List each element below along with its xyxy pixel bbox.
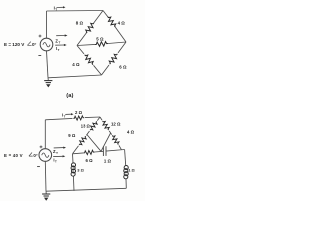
resistor R9 12-ohm (right diagonal upper) — [101, 120, 110, 131]
wire: resistor R1 to node T — [94, 11, 103, 23]
ground symbol circuit (a) — [44, 81, 52, 88]
wire: resistor R9 to node RN — [109, 131, 112, 135]
wire: node B to resistor R5, lower-right bridge arm — [102, 65, 110, 75]
minus sign of source E1 — [38, 55, 41, 57]
ac source E2 circle — [39, 149, 52, 162]
wire: middle branch, node LVa to resistor R11 — [73, 152, 84, 155]
wire: node L to resistor R4, lower-left bridge arm — [77, 46, 84, 54]
wire: circuit (b) source E2 top lead, vertical — [44, 120, 46, 149]
wire: circuit (a) top horizontal to node T — [47, 10, 104, 13]
resistor R10 4-ohm (right diagonal lower) — [111, 134, 120, 145]
wire: resistor R10 to middle wire junction — [119, 145, 122, 149]
ground symbol circuit (b) — [42, 194, 50, 201]
svg-text:3 Ω: 3 Ω — [77, 167, 84, 172]
arrow over I_T label (b) — [53, 155, 63, 157]
wire: resistor R4 to node B — [94, 65, 102, 75]
svg-text:13 Ω: 13 Ω — [81, 124, 91, 129]
resistor R6 2-ohm series — [73, 116, 84, 121]
svg-text:(a): (a) — [66, 93, 73, 99]
svg-text:4 Ω: 4 Ω — [127, 129, 135, 134]
wire: circuit (b) source E2 bottom lead — [44, 161, 47, 191]
wire: node T to resistor R2, upper-right bridge arm — [103, 11, 108, 17]
resistor R7 13-ohm (left diagonal upper) — [89, 120, 99, 131]
current arrow I_T top of circuit (a) — [57, 6, 64, 8]
svg-text:2 Ω: 2 Ω — [75, 110, 83, 115]
wire: circuit (a) bottom return, node B to left corner — [48, 75, 102, 78]
wire: inductor L1 to bottom wire — [72, 176, 75, 191]
wire: resistor R6 to node TN — [85, 116, 100, 119]
svg-text:E = 40 V: E = 40 V — [4, 153, 23, 158]
arrow over Z_T label (a) — [56, 35, 65, 37]
svg-text:T: T — [55, 160, 57, 164]
svg-text:E = 120 V: E = 120 V — [4, 42, 25, 47]
ac source E1 circle — [40, 38, 53, 51]
wire: circuit (a) source E1 top lead, vertical — [46, 11, 48, 38]
wire: circuit (a) source E1 bottom lead — [47, 51, 49, 78]
arrow over Z_T label (b) — [54, 147, 64, 149]
wire: inner cross brace node RN to node BN — [101, 133, 111, 151]
svg-text:T: T — [58, 48, 60, 52]
resistor R2 4-ohm (arm T-R) — [106, 15, 117, 28]
svg-text:8 Ω: 8 Ω — [76, 21, 84, 26]
svg-text:12 Ω: 12 Ω — [111, 121, 121, 126]
wire: capacitor C1 to right corner — [106, 150, 125, 152]
svg-text:T: T — [56, 151, 58, 155]
current arrow I_T top of circuit (b) — [65, 113, 71, 115]
capacitor C1 1-ohm plates — [102, 146, 104, 156]
wire: resistor R7 to node LN — [86, 131, 89, 135]
wire: right corner down to inductor L2 — [125, 150, 126, 166]
wire: circuit (b) bottom return — [46, 188, 126, 191]
svg-text:0°: 0° — [32, 42, 37, 47]
plus sign of source E2 — [40, 146, 43, 149]
wire: resistor R5 to node R — [118, 42, 126, 53]
resistor R1 8-ohm (arm L-T) — [84, 21, 95, 34]
svg-text:0°: 0° — [33, 153, 37, 158]
wire: node L to resistor R3, middle bridge branch — [77, 44, 95, 45]
svg-text:6 Ω: 6 Ω — [86, 158, 94, 163]
plus sign of source E1 — [39, 35, 42, 38]
arrow over I_T label (a) — [55, 44, 64, 46]
resistor R11 6-ohm (middle branch) — [83, 150, 94, 155]
svg-text:1 Ω: 1 Ω — [128, 168, 135, 173]
wire: inductor L2 to bottom-right corner — [125, 179, 127, 188]
wire: circuit (b) top horizontal to resistor R6 — [45, 118, 72, 119]
ac source E2 sine wave — [42, 153, 49, 157]
svg-text:4 Ω: 4 Ω — [72, 62, 80, 67]
wire: node LVa down to inductor L1 — [72, 154, 75, 163]
svg-text:5 Ω: 5 Ω — [96, 36, 104, 41]
wire: resistor R8 to node LVa — [73, 146, 79, 154]
wire: ground stub circuit (a) — [47, 78, 49, 80]
resistor R4 4-ohm (arm L-B) — [83, 53, 95, 66]
svg-text:1 Ω: 1 Ω — [104, 159, 112, 164]
svg-text:4 Ω: 4 Ω — [118, 20, 126, 25]
svg-text:T: T — [55, 7, 57, 11]
wire: ground stub circuit (b) — [45, 191, 47, 193]
ac source E1 sine wave — [43, 43, 50, 47]
angle symbol in source value label (a) — [27, 42, 31, 46]
wire: node L to resistor R1, upper-left bridge arm — [77, 33, 86, 45]
wire: resistor R11 to capacitor C1 — [95, 150, 104, 153]
wire: node TN to resistor R7, left diagonal — [97, 117, 100, 121]
svg-text:9 Ω: 9 Ω — [68, 133, 76, 138]
inductor L2 1-ohm (right vertical) — [124, 166, 129, 179]
svg-text:T: T — [59, 40, 61, 44]
minus sign of source E2 — [37, 166, 40, 168]
resistor R8 9-ohm (left diagonal lower) — [78, 135, 88, 146]
angle symbol in source value label (b) — [29, 153, 33, 157]
svg-text:6 Ω: 6 Ω — [119, 64, 127, 69]
wire: node TN to resistor R9, right diagonal — [100, 117, 102, 120]
svg-text:T: T — [64, 115, 66, 119]
resistor R3 5-ohm (bridge middle L-R) — [95, 41, 108, 46]
wire: resistor R2 to node R — [115, 27, 126, 42]
resistor R5 6-ohm (arm B-R) — [108, 52, 119, 65]
wire: resistor R3 to node R — [108, 42, 126, 44]
wire: inner cross brace node LN to node BN — [87, 135, 101, 152]
inductor L1 3-ohm (left vertical) — [71, 163, 76, 176]
